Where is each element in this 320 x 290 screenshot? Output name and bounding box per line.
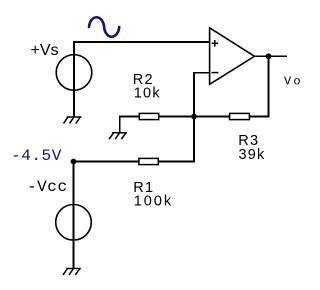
svg-text:10k: 10k xyxy=(134,86,161,102)
svg-text:Vo: Vo xyxy=(284,75,303,89)
svg-text:+Vs: +Vs xyxy=(31,42,59,59)
svg-text:100k: 100k xyxy=(134,193,173,209)
svg-text:39k: 39k xyxy=(239,147,266,163)
svg-text:-Vcc: -Vcc xyxy=(27,178,68,196)
svg-text:-4.5V: -4.5V xyxy=(11,147,62,165)
